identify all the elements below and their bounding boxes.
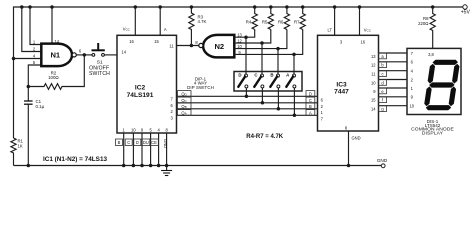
wire IC2 pin11 to N2 output <box>177 40 199 47</box>
svg-text:10: 10 <box>237 44 242 49</box>
resistor R1 1K <box>11 138 24 166</box>
svg-text:B: B <box>309 104 312 109</box>
wire IC2 pin4 to rail <box>150 133 161 167</box>
svg-text:14: 14 <box>122 49 127 54</box>
svg-text:N2: N2 <box>214 42 224 51</box>
DIP switch DIP-1 box <box>187 72 302 92</box>
svg-text:12: 12 <box>371 63 376 68</box>
svg-text:11: 11 <box>371 72 376 77</box>
wire bus QB <box>177 103 324 115</box>
switch B <box>270 49 280 109</box>
svg-text:B: B <box>270 73 273 78</box>
svg-text:GND: GND <box>163 139 168 148</box>
svg-text:QD: QD <box>181 91 187 96</box>
wire bus QC <box>177 97 324 109</box>
svg-text:R5: R5 <box>262 19 268 24</box>
resistor R5 <box>262 5 274 29</box>
svg-text:A: A <box>164 27 167 32</box>
svg-text:IC1 (N1-N2) = 74LS13: IC1 (N1-N2) = 74LS13 <box>43 156 108 163</box>
svg-text:12: 12 <box>237 38 242 43</box>
switch C <box>254 43 264 103</box>
wire N2 pin10 line <box>234 30 287 51</box>
svg-text:16: 16 <box>361 40 366 45</box>
svg-text:10: 10 <box>131 127 136 132</box>
svg-text:100Ω: 100Ω <box>48 75 59 80</box>
wire N1 pin14 from rail <box>50 5 60 44</box>
wire segment f <box>379 95 414 103</box>
svg-text:C: C <box>127 140 130 145</box>
svg-text:IC2: IC2 <box>135 85 146 92</box>
svg-text:DIP SWITCH: DIP SWITCH <box>187 85 214 90</box>
svg-text:DISPLAY: DISPLAY <box>422 131 444 137</box>
display DIS-1 box <box>407 48 461 114</box>
display caption <box>411 119 454 137</box>
wire bottom ground rail <box>14 165 382 167</box>
svg-text:15: 15 <box>371 98 376 103</box>
wire bus QA <box>177 110 324 122</box>
svg-text:VCC: VCC <box>364 27 372 32</box>
svg-text:16: 16 <box>129 39 134 44</box>
svg-text:14: 14 <box>371 107 376 112</box>
svg-text:SWITCH: SWITCH <box>89 71 110 77</box>
value label IC1 <box>43 156 108 163</box>
wire N1 output to S1 <box>76 53 92 57</box>
NAND gate N1 (IC1 74LS13) with output bubble and pin 6 <box>41 44 82 67</box>
wire IC2 pin9 to rail <box>134 133 144 167</box>
svg-text:QA: QA <box>181 110 186 115</box>
svg-text:D: D <box>309 91 312 96</box>
wire N1 pin2 from rail <box>20 5 41 51</box>
svg-text:R6: R6 <box>278 19 284 24</box>
svg-text:GND: GND <box>352 136 361 141</box>
svg-text:13: 13 <box>237 33 242 38</box>
resistor R7 <box>294 5 305 29</box>
node +5V terminal <box>461 5 471 16</box>
wire segment a <box>379 51 414 59</box>
svg-text:1K: 1K <box>18 143 23 148</box>
wire IC3 GND pin8 <box>347 131 361 167</box>
wire segment b <box>379 60 414 68</box>
NAND gate N2 (IC1 74LS13), mirrored, output pin 8 <box>199 35 235 58</box>
wire IC2 A pin15 <box>158 5 166 35</box>
svg-text:B: B <box>118 140 121 145</box>
svg-text:13: 13 <box>371 54 376 59</box>
svg-text:11: 11 <box>169 44 174 49</box>
svg-text:10: 10 <box>410 104 415 109</box>
wire N1 pin1 from rail <box>28 5 41 44</box>
wire S1 to IC2 pin14 <box>105 54 118 56</box>
svg-text:VCC: VCC <box>123 27 131 32</box>
wire bus QD <box>177 91 324 103</box>
wire IC3 Vcc pin16 <box>358 5 372 35</box>
switch A <box>286 54 296 115</box>
svg-text:10: 10 <box>371 80 376 85</box>
svg-text:R4: R4 <box>246 19 252 24</box>
wire segment e <box>379 86 414 94</box>
wire IC2 pin5 to rail <box>142 133 153 167</box>
svg-text:+5V: +5V <box>461 10 471 16</box>
wire N1 pin4 stub <box>12 53 42 60</box>
svg-text:QB: QB <box>181 104 186 109</box>
wire IC2 pin1 to rail <box>116 133 126 167</box>
svg-text:15: 15 <box>154 39 159 44</box>
svg-text:7447: 7447 <box>334 89 349 96</box>
svg-text:0.1µ: 0.1µ <box>36 104 45 109</box>
node C1 ground junction <box>27 164 31 168</box>
svg-text:N1: N1 <box>50 50 60 59</box>
wire IC2 Vcc pin16 <box>123 5 137 35</box>
svg-text:3,8: 3,8 <box>428 52 434 57</box>
svg-text:R7: R7 <box>294 19 300 24</box>
7-segment digit 8 <box>423 60 460 111</box>
wire N2 pin13 line <box>234 30 254 39</box>
resistor R6 <box>278 5 290 29</box>
svg-text:DU: DU <box>143 140 149 145</box>
svg-text:C: C <box>309 98 312 103</box>
svg-text:IC3: IC3 <box>336 81 347 88</box>
wire N1 pin5 to RC node <box>27 60 42 101</box>
wire top +5V rail <box>14 7 463 138</box>
svg-text:220Ω: 220Ω <box>418 21 429 26</box>
svg-text:QC: QC <box>181 98 187 103</box>
resistor R4 <box>246 5 258 29</box>
capacitor C1 0.1u <box>24 99 45 166</box>
resistor R8 220R <box>418 5 435 48</box>
resistor R2 feedback 100R <box>28 57 84 90</box>
IC2 74LS191 box <box>117 35 177 133</box>
wire IC3 LT pin3 <box>328 5 337 35</box>
ground <box>161 166 172 176</box>
node GND terminal <box>377 158 388 168</box>
svg-text:CE: CE <box>151 140 157 145</box>
resistor R3 4.7K pull-up <box>189 5 207 45</box>
wire segment g <box>379 104 415 112</box>
svg-text:LT: LT <box>328 27 333 32</box>
svg-text:D: D <box>136 140 139 145</box>
svg-text:A: A <box>309 110 312 115</box>
wire IC2 pin10 to rail <box>125 133 135 167</box>
svg-text:R4-R7 = 4.7K: R4-R7 = 4.7K <box>246 134 284 140</box>
svg-text:D: D <box>238 73 241 78</box>
value label R4-R7 <box>246 134 284 140</box>
svg-text:GND: GND <box>377 158 388 163</box>
wire IC2 pin8 GND to rail <box>163 133 168 167</box>
wire segment d <box>379 77 414 85</box>
svg-text:c: c <box>381 72 383 77</box>
wire N2 pin12 line <box>234 30 270 45</box>
switch D <box>238 37 248 96</box>
wire segment c <box>379 69 414 77</box>
svg-text:4.7K: 4.7K <box>198 19 207 24</box>
switch S1 push-button <box>89 43 110 77</box>
IC3 7447 box <box>318 35 379 131</box>
wire N2 pin9 line <box>234 30 302 57</box>
svg-text:74LS191: 74LS191 <box>127 92 154 99</box>
